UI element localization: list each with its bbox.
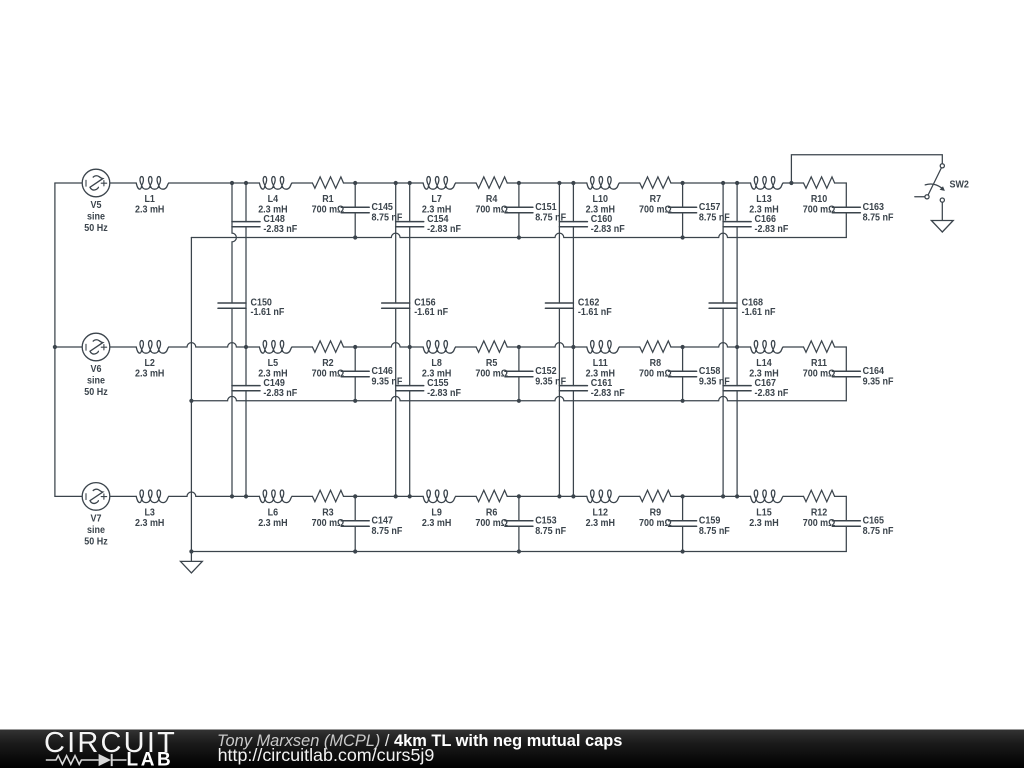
capacitor C163 8.75 nF (832, 207, 860, 213)
inductor L7 2.3 mH (423, 177, 456, 190)
wire shunt-cap lead row3 col2 (518, 496, 520, 551)
capacitor C154 -2.83 nF (396, 222, 424, 227)
capacitor C155 -2.83 nF (396, 386, 424, 391)
wire SW2 branch (row1 tap to switch) (791, 155, 942, 183)
capacitor C165 8.75 nF (832, 521, 860, 527)
svg-text:2.3 mH: 2.3 mH (749, 518, 778, 530)
wire neutral bus 1 (row1 shunt-cap return) (191, 233, 846, 237)
svg-text:700 mΩ: 700 mΩ (312, 204, 345, 216)
svg-text:8.75 nF: 8.75 nF (535, 525, 566, 537)
junction dots neutral bus 3 (189, 549, 684, 553)
svg-text:sine: sine (87, 524, 105, 536)
voltage source V7 (sine 50 Hz) (82, 483, 110, 511)
capacitor C158 9.35 nF (669, 371, 697, 377)
svg-text:8.75 nF: 8.75 nF (863, 525, 894, 537)
wire right drop row2 into shunt cap (845, 347, 847, 371)
svg-text:-2.83 nF: -2.83 nF (755, 388, 789, 400)
resistor R10 700 mOhm (804, 177, 835, 188)
svg-text:700 mΩ: 700 mΩ (803, 204, 836, 216)
capacitor C152 9.35 nF (505, 371, 533, 377)
svg-text:-2.83 nF: -2.83 nF (263, 388, 297, 400)
svg-text:9.35 nF: 9.35 nF (535, 376, 566, 388)
wire shunt-cap lead row2 col3 (682, 347, 684, 401)
wire row3 (phase C) horizontal run (55, 492, 846, 496)
capacitor C166 -2.83 nF (723, 222, 751, 227)
svg-text:-1.61 nF: -1.61 nF (742, 307, 776, 319)
wire shunt-cap lead row1 col1 (354, 183, 356, 238)
capacitor C156 -1.61 nF (382, 303, 410, 308)
wire shunt-cap lead row1 col3 (682, 183, 684, 238)
svg-text:8.75 nF: 8.75 nF (535, 212, 566, 224)
svg-text:8.75 nF: 8.75 nF (699, 525, 730, 537)
svg-text:-1.61 nF: -1.61 nF (414, 307, 448, 319)
wire shunt-cap lead row3 col1 (354, 496, 356, 551)
inductor L9 2.3 mH (423, 490, 456, 503)
inductor L10 2.3 mH (587, 177, 620, 190)
wire mutual column 3 outer (row1-row3) (558, 183, 560, 496)
svg-text:2.3 mH: 2.3 mH (135, 368, 164, 380)
wire right drop row1 into shunt cap (845, 183, 847, 207)
svg-text:8.75 nF: 8.75 nF (699, 212, 730, 224)
svg-text:700 mΩ: 700 mΩ (475, 368, 508, 380)
junction dots row2 (53, 345, 739, 349)
svg-text:50 Hz: 50 Hz (84, 223, 108, 235)
capacitor C167 -2.83 nF (723, 386, 751, 391)
resistor R8 700 mOhm (640, 341, 671, 352)
svg-text:-2.83 nF: -2.83 nF (263, 224, 297, 236)
junction dots row1 (230, 181, 794, 185)
inductor L3 2.3 mH (136, 490, 169, 503)
svg-text:8.75 nF: 8.75 nF (372, 525, 403, 537)
inductor L11 2.3 mH (587, 341, 620, 354)
capacitor C150 -1.61 nF (218, 303, 246, 308)
svg-text:sine: sine (87, 375, 105, 387)
svg-text:-2.83 nF: -2.83 nF (427, 388, 461, 400)
svg-text:V5: V5 (91, 200, 103, 212)
resistor R7 700 mOhm (640, 177, 671, 188)
capacitor C157 8.75 nF (669, 207, 697, 213)
svg-text:700 mΩ: 700 mΩ (639, 204, 672, 216)
svg-text:9.35 nF: 9.35 nF (372, 376, 403, 388)
inductor L8 2.3 mH (423, 341, 456, 354)
wire shunt-cap lead row3 col3 (682, 496, 684, 551)
capacitor C149 -2.83 nF (232, 386, 260, 391)
wire mutual column 1 outer (row1-row3) (232, 183, 236, 496)
svg-text:2.3 mH: 2.3 mH (258, 518, 287, 530)
junction dots row3 (230, 494, 739, 498)
svg-text:-2.83 nF: -2.83 nF (427, 224, 461, 236)
svg-text:700 mΩ: 700 mΩ (803, 368, 836, 380)
wire ground feeder vertical (190, 238, 192, 552)
capacitor C162 -1.61 nF (545, 303, 573, 308)
svg-text:-1.61 nF: -1.61 nF (578, 307, 612, 319)
ground (neutral bus) (181, 552, 203, 573)
svg-text:V6: V6 (91, 364, 102, 376)
capacitor C147 8.75 nF (341, 521, 369, 527)
inductor L14 2.3 mH (751, 341, 784, 354)
svg-text:V7: V7 (91, 513, 102, 525)
capacitor C160 -2.83 nF (559, 222, 587, 227)
svg-text:700 mΩ: 700 mΩ (312, 368, 345, 380)
resistor R2 700 mOhm (312, 341, 343, 352)
svg-text:2.3 mH: 2.3 mH (135, 518, 164, 530)
wire mutual column 4 adjacent (row1-row2-row3) (736, 183, 738, 496)
svg-text:2.3 mH: 2.3 mH (422, 518, 451, 530)
capacitor C151 8.75 nF (505, 207, 533, 213)
resistor R3 700 mOhm (312, 490, 343, 501)
inductor L15 2.3 mH (751, 490, 784, 503)
svg-text:2.3 mH: 2.3 mH (586, 518, 615, 530)
inductor L13 2.3 mH (751, 177, 784, 190)
capacitor C161 -2.83 nF (559, 386, 587, 391)
svg-text:-2.83 nF: -2.83 nF (591, 388, 625, 400)
capacitor C146 9.35 nF (341, 371, 369, 377)
voltage source V5 (sine 50 Hz) (82, 169, 110, 197)
capacitor C148 -2.83 nF (232, 222, 260, 227)
svg-text:SW2: SW2 (950, 179, 969, 191)
inductor L6 2.3 mH (259, 490, 292, 503)
inductor L5 2.3 mH (259, 341, 292, 354)
svg-text:-1.61 nF: -1.61 nF (251, 307, 285, 319)
wire mutual column 2 outer (row1-row3) (395, 183, 397, 496)
resistor R4 700 mOhm (476, 177, 507, 188)
voltage source V6 (sine 50 Hz) (82, 333, 110, 361)
resistor R11 700 mOhm (804, 341, 835, 352)
svg-text:9.35 nF: 9.35 nF (863, 376, 894, 388)
svg-text:700 mΩ: 700 mΩ (475, 204, 508, 216)
svg-text:700 mΩ: 700 mΩ (639, 518, 672, 530)
wire mutual column 3 adjacent (row1-row2-row3) (572, 183, 574, 496)
capacitor C168 -1.61 nF (709, 303, 737, 308)
wire row2 (phase B) horizontal run (55, 343, 846, 347)
svg-text:8.75 nF: 8.75 nF (372, 212, 403, 224)
svg-text:LAB: LAB (127, 750, 174, 768)
svg-text:8.75 nF: 8.75 nF (863, 212, 894, 224)
ground (SW2) (931, 202, 953, 232)
CircuitLab logo (44, 727, 177, 771)
wire mutual column 2 adjacent (row1-row2-row3) (409, 183, 411, 496)
resistor R9 700 mOhm (640, 490, 671, 501)
inductor L2 2.3 mH (136, 341, 169, 354)
capacitor C164 9.35 nF (832, 371, 860, 377)
inductor L1 2.3 mH (136, 177, 169, 190)
svg-text:700 mΩ: 700 mΩ (639, 368, 672, 380)
wire mutual column 4 outer (row1-row3) (722, 183, 724, 496)
svg-text:2.3 mH: 2.3 mH (135, 204, 164, 216)
resistor R12 700 mOhm (804, 490, 835, 501)
svg-text:700 mΩ: 700 mΩ (803, 518, 836, 530)
wire mutual column 1 adjacent (row1-row2-row3) (245, 183, 247, 496)
inductor L12 2.3 mH (587, 490, 620, 503)
resistor R1 700 mOhm (312, 177, 343, 188)
junction dots neutral bus 2 (189, 399, 684, 403)
wire row1 (phase A) horizontal run (55, 182, 846, 184)
svg-text:50 Hz: 50 Hz (84, 387, 108, 399)
wire shunt-cap lead row2 col1 (354, 347, 356, 401)
svg-text:-2.83 nF: -2.83 nF (591, 224, 625, 236)
wire shunt-cap lead row2 col2 (518, 347, 520, 401)
svg-text:9.35 nF: 9.35 nF (699, 376, 730, 388)
wire shunt-cap lead row1 col2 (518, 183, 520, 238)
switch SW2 (915, 164, 945, 203)
svg-text:700 mΩ: 700 mΩ (475, 518, 508, 530)
svg-text:sine: sine (87, 211, 105, 223)
svg-text:-2.83 nF: -2.83 nF (755, 224, 789, 236)
capacitor C145 8.75 nF (341, 207, 369, 213)
capacitor C159 8.75 nF (669, 521, 697, 527)
wire neutral bus 3 (row3 shunt-cap return) (191, 551, 846, 553)
svg-text:http://circuitlab.com/curs5j9: http://circuitlab.com/curs5j9 (218, 745, 435, 765)
svg-text:700 mΩ: 700 mΩ (312, 518, 345, 530)
junction dots neutral bus 1 (353, 235, 685, 239)
capacitor C153 8.75 nF (505, 521, 533, 527)
svg-text:50 Hz: 50 Hz (84, 536, 108, 548)
resistor R6 700 mOhm (476, 490, 507, 501)
resistor R5 700 mOhm (476, 341, 507, 352)
wire right drop row3 into shunt cap (845, 496, 847, 520)
inductor L4 2.3 mH (259, 177, 292, 190)
wire neutral bus 2 (row2 shunt-cap return) (191, 396, 846, 400)
wire left source bus (54, 183, 56, 496)
